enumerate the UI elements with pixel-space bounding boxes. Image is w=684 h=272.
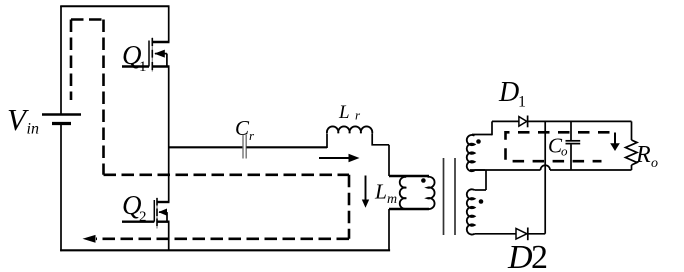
- wire battery bottom: [60, 124, 62, 251]
- svg-text:2: 2: [531, 239, 548, 272]
- svg-text:R: R: [635, 142, 651, 168]
- polarity dot secondary upper: [476, 139, 481, 144]
- label Q2: [122, 190, 147, 225]
- label Vin: [7, 102, 39, 138]
- polarity dot secondary lower: [479, 199, 484, 204]
- svg-text:L: L: [338, 102, 350, 123]
- wire top rail: [60, 5, 169, 7]
- svg-text:1: 1: [139, 59, 147, 75]
- arrow output current (down): [610, 133, 620, 152]
- transformer primary winding: [428, 177, 435, 209]
- wire center tap riser: [485, 170, 487, 190]
- wire midpoint to Cr: [169, 146, 243, 148]
- capacitor Co: [566, 121, 581, 170]
- battery V_in source: [42, 115, 81, 124]
- arrow magnetizing current (down): [362, 176, 369, 208]
- svg-text:C: C: [235, 116, 250, 140]
- svg-text:in: in: [27, 121, 39, 138]
- label D2: [507, 239, 548, 272]
- dashed primary loop: return with arrow: [83, 235, 350, 243]
- diode D1: [519, 116, 528, 128]
- transformer secondary upper winding: [467, 135, 492, 172]
- inductor Lm (magnetizing): [400, 177, 407, 209]
- wire bottom rail: [60, 249, 390, 251]
- polarity dot primary: [421, 178, 426, 183]
- transistor Q1: [122, 38, 170, 72]
- capacitor Cr: [243, 135, 246, 159]
- label Cr: [235, 116, 255, 143]
- dashed primary loop: top horizontal: [71, 18, 104, 21]
- wire top output rail: [492, 120, 632, 122]
- diode D2: [516, 228, 545, 241]
- wire half-bridge rail lower (Q2 source to bottom rail): [168, 222, 170, 251]
- wire half-bridge rail upper (top to Q1 drain): [168, 6, 170, 42]
- inductor Lr: [327, 126, 389, 148]
- wire primary bottom bar: [389, 208, 429, 210]
- wire secondary top riser to D1: [491, 121, 493, 135]
- svg-text:D: D: [507, 239, 533, 272]
- wire D2 cathode riser to output rail: [544, 121, 546, 233]
- label Lm: [374, 180, 397, 208]
- wire Cr to Lr: [246, 146, 327, 148]
- dashed primary loop: down to return: [348, 175, 351, 239]
- dashed primary current loop: up near battery: [70, 20, 73, 101]
- arrow resonant current (right): [319, 154, 360, 163]
- svg-text:L: L: [374, 180, 387, 204]
- label Q1: [122, 40, 147, 75]
- dashed primary loop: down beside Q1: [102, 20, 105, 175]
- wire primary block down to bottom rail: [388, 209, 390, 251]
- resistor Ro: [626, 121, 638, 170]
- wire battery top to rail: [60, 6, 62, 114]
- svg-text:1: 1: [518, 94, 526, 111]
- svg-text:2: 2: [139, 209, 147, 225]
- transistor Q2: [122, 198, 170, 229]
- label D1: [498, 77, 526, 111]
- svg-text:o: o: [561, 144, 568, 159]
- label Ro: [635, 142, 658, 171]
- wire half-bridge rail middle (Q1 source to Q2 drain): [168, 67, 170, 203]
- transformer core: [444, 158, 456, 235]
- label Lr: [338, 102, 361, 123]
- output return wire with crossover hump: [470, 165, 632, 170]
- dashed primary loop: across below Cr/Lr: [104, 174, 350, 177]
- transformer secondary lower winding: [467, 189, 516, 234]
- label Co: [548, 134, 568, 159]
- svg-text:D: D: [498, 77, 519, 108]
- svg-text:o: o: [651, 156, 658, 171]
- dashed secondary current loop: [506, 132, 610, 161]
- svg-text:m: m: [387, 192, 397, 207]
- wire Lr down to primary block: [388, 145, 390, 176]
- wire primary top bar: [389, 175, 429, 177]
